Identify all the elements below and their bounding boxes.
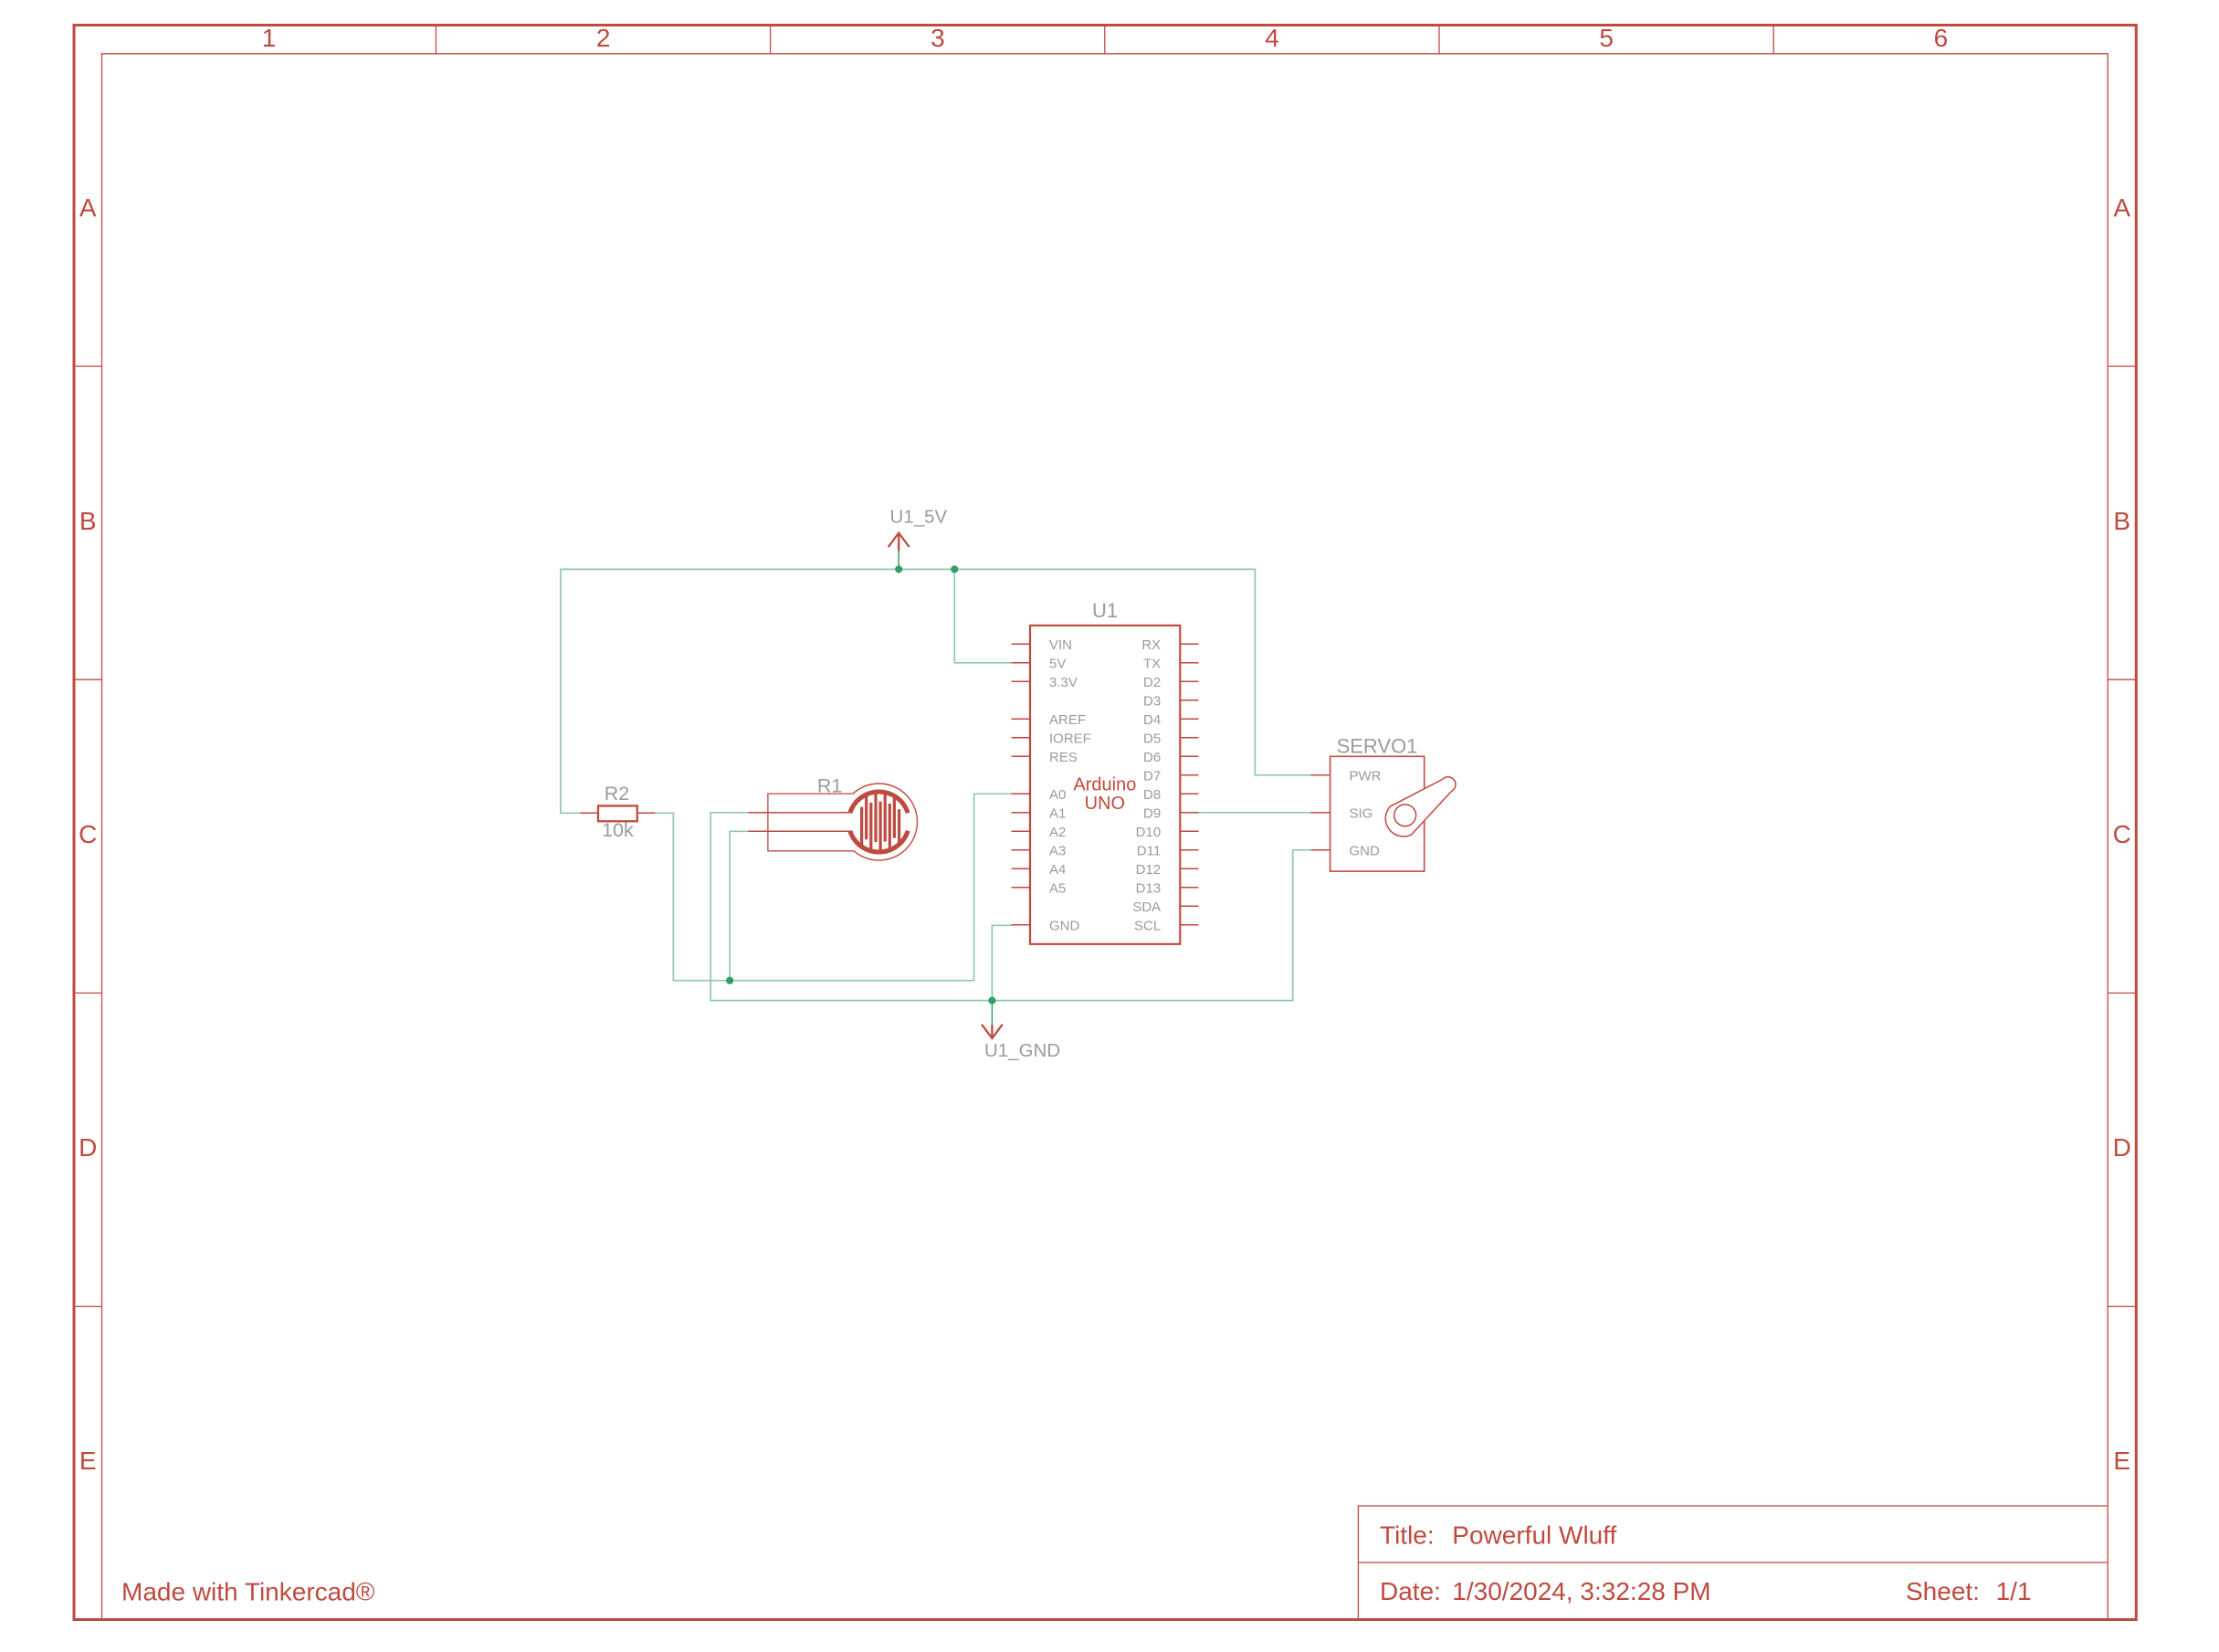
- svg-text:D: D: [79, 1133, 97, 1162]
- title block: [1358, 1506, 2108, 1620]
- svg-text:E: E: [79, 1447, 97, 1475]
- node junction dot on rail at power symbol: [895, 565, 902, 573]
- svg-text:10k: 10k: [602, 819, 634, 841]
- svg-text:D10: D10: [1136, 825, 1162, 840]
- svg-text:UNO: UNO: [1085, 794, 1125, 814]
- Arduino U1 box: [1030, 626, 1180, 944]
- svg-text:Made with Tinkercad®: Made with Tinkercad®: [121, 1577, 375, 1605]
- force sensor R1 comb fingers: [862, 793, 899, 852]
- resistor R2 pin stubs: [580, 812, 598, 814]
- svg-text:Sheet:: Sheet:: [1906, 1577, 1980, 1605]
- force sensor R1 tail outline: [768, 794, 854, 851]
- svg-text:RES: RES: [1049, 750, 1078, 765]
- wire R1 lower pin to A0 net: [730, 831, 748, 980]
- svg-text:A3: A3: [1049, 843, 1066, 858]
- wire net D9 to servo SIG: [1198, 812, 1311, 814]
- svg-text:D7: D7: [1143, 768, 1161, 784]
- svg-text:VIN: VIN: [1049, 637, 1072, 653]
- force sensor R1 pin traces: [748, 812, 850, 814]
- svg-text:3: 3: [931, 24, 945, 52]
- svg-text:1/1: 1/1: [1996, 1577, 2032, 1605]
- svg-text:D6: D6: [1143, 750, 1161, 765]
- svg-text:SCL: SCL: [1134, 918, 1161, 933]
- wire net U1_5V: rail from R2 left to servo PWR: [561, 569, 1311, 813]
- svg-text:SERVO1: SERVO1: [1337, 735, 1418, 758]
- node junction dot on rail at 5V branch: [951, 565, 958, 573]
- svg-text:TX: TX: [1143, 656, 1161, 671]
- svg-text:B: B: [79, 507, 97, 535]
- svg-text:Arduino: Arduino: [1073, 775, 1136, 795]
- svg-text:R1: R1: [817, 774, 842, 796]
- svg-text:1: 1: [262, 24, 277, 52]
- svg-text:A1: A1: [1049, 805, 1066, 821]
- svg-text:IOREF: IOREF: [1049, 731, 1091, 746]
- svg-text:4: 4: [1265, 24, 1279, 52]
- svg-text:RX: RX: [1141, 637, 1161, 653]
- svg-text:5: 5: [1599, 24, 1614, 52]
- wire 5V branch to U1 pin 5V: [954, 569, 1012, 662]
- svg-text:Powerful Wluff: Powerful Wluff: [1452, 1521, 1616, 1550]
- svg-text:A2: A2: [1049, 825, 1066, 840]
- Arduino U1 unconnected pin stubs: [1012, 644, 1199, 925]
- svg-text:A4: A4: [1049, 862, 1066, 878]
- svg-text:Title:: Title:: [1380, 1521, 1435, 1550]
- svg-text:D11: D11: [1137, 843, 1161, 858]
- svg-text:D9: D9: [1143, 805, 1161, 821]
- svg-text:D12: D12: [1136, 862, 1162, 878]
- svg-text:C: C: [79, 820, 97, 848]
- svg-text:U1: U1: [1092, 599, 1118, 622]
- svg-text:1/30/2024, 3:32:28 PM: 1/30/2024, 3:32:28 PM: [1452, 1577, 1710, 1605]
- svg-text:A: A: [79, 194, 97, 222]
- node junction dot GND net: [988, 997, 995, 1005]
- node junction dot A0 net: [726, 977, 733, 984]
- svg-text:E: E: [2113, 1447, 2130, 1475]
- svg-text:AREF: AREF: [1049, 712, 1086, 728]
- power symbol U1_5V arrow: [889, 533, 910, 552]
- resistor R2 body: [598, 805, 637, 821]
- svg-text:Date:: Date:: [1380, 1577, 1441, 1605]
- servo SERVO1 pin stubs: [1311, 775, 1330, 850]
- ground symbol U1_GND arrow: [982, 1025, 1003, 1038]
- Arduino U1 connected pin stubs: [1012, 663, 1199, 925]
- wire ground-symbol shaft green: [991, 1001, 993, 1025]
- svg-text:U1_GND: U1_GND: [984, 1040, 1060, 1061]
- svg-text:C: C: [2113, 820, 2131, 848]
- border column ticks: [435, 26, 436, 54]
- force sensor R1 bottom electrode arc: [850, 831, 908, 852]
- force sensor R1 outline circle: [841, 784, 918, 860]
- svg-text:D8: D8: [1143, 787, 1161, 803]
- svg-text:D4: D4: [1143, 712, 1161, 728]
- force sensor R1 top electrode arc: [850, 792, 908, 813]
- border row ticks: [74, 365, 102, 367]
- servo SERVO1 horn hole: [1394, 805, 1416, 826]
- svg-text:3.3V: 3.3V: [1049, 675, 1078, 690]
- svg-text:D5: D5: [1143, 731, 1161, 746]
- svg-text:SIG: SIG: [1350, 805, 1373, 821]
- svg-text:A0: A0: [1049, 787, 1066, 803]
- wire net A0: R2 right to U1 A0: [655, 794, 1012, 980]
- svg-text:D: D: [2113, 1133, 2131, 1162]
- svg-text:6: 6: [1934, 24, 1949, 52]
- servo SERVO1 horn: [1385, 777, 1456, 837]
- svg-text:A: A: [2113, 194, 2130, 222]
- svg-text:D3: D3: [1143, 693, 1161, 709]
- svg-text:5V: 5V: [1049, 656, 1066, 671]
- svg-text:D13: D13: [1136, 880, 1162, 896]
- svg-text:SDA: SDA: [1132, 900, 1161, 915]
- svg-text:R2: R2: [605, 783, 629, 805]
- wire power-symbol shaft green: [898, 552, 899, 570]
- svg-text:A5: A5: [1049, 880, 1066, 896]
- svg-text:2: 2: [596, 24, 611, 52]
- svg-text:D2: D2: [1143, 675, 1161, 690]
- svg-text:U1_5V: U1_5V: [890, 507, 948, 528]
- servo SERVO1 box: [1330, 756, 1425, 871]
- svg-text:B: B: [2113, 507, 2130, 535]
- wire net GND: R1 mid pin to servo GND: [710, 813, 1310, 1001]
- svg-text:GND: GND: [1049, 918, 1080, 933]
- svg-text:PWR: PWR: [1350, 768, 1382, 784]
- svg-text:GND: GND: [1350, 843, 1381, 858]
- wire U1 GND pin to GND net: [992, 925, 1011, 1000]
